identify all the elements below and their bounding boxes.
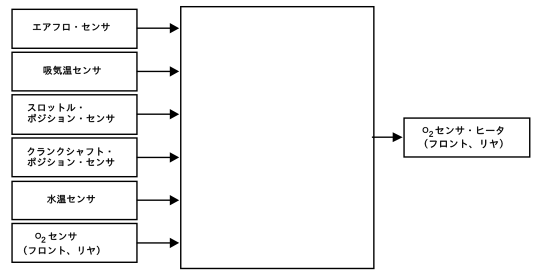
- wire: arrow water temp sensor to ECM: [136, 195, 179, 205]
- wire: arrow crankshaft position sensor to ECM: [136, 152, 179, 162]
- wire: arrow intake air temp sensor to ECM: [136, 66, 179, 76]
- block: O2 sensor front/rear (O2センサ（フロント、リヤ）): [12, 223, 137, 262]
- wire: arrow ECM to O2 sensor heater: [372, 132, 403, 142]
- block: O2 sensor heater front/rear (O2センサ・ヒータ（フロント、リヤ）): [404, 118, 530, 157]
- wire: arrow throttle position sensor to ECM: [136, 109, 179, 119]
- block: air flow sensor (エアフロ・センサ): [12, 9, 137, 48]
- wire: arrow O2 sensor to ECM: [136, 238, 179, 248]
- block: ECM (engine control module, unlabeled): [181, 7, 374, 269]
- block: water temperature sensor (水温センサ): [12, 181, 137, 219]
- wire: arrow air flow sensor to ECM: [136, 23, 179, 33]
- block: crankshaft position sensor (クランクシャフト・ポジション・センサ): [12, 138, 137, 177]
- block: throttle position sensor (スロットル・ポジション・センサ): [12, 95, 137, 135]
- block: intake air temperature sensor (吸気温センサ): [12, 52, 137, 91]
